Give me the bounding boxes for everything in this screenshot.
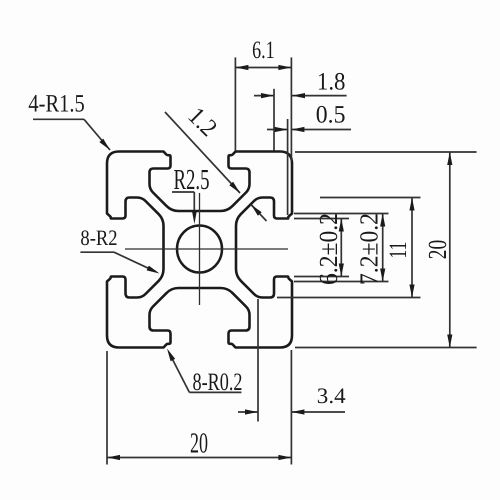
ext line 20 right top [295,151,477,153]
dim 7.2 line [382,214,384,282]
svg-text:3.4: 3.4 [317,383,346,408]
ext line 6.1 left [234,57,236,150]
leader 1.2 [165,112,240,193]
ext line 1.8 [273,89,275,151]
dim 11 line [411,198,413,298]
ext line 6.2 bottom [294,276,349,278]
dim 6.2 line [340,219,342,277]
dim 0.5 lines [267,129,288,131]
svg-text:R2.5: R2.5 [174,164,210,196]
ext line 11 top [320,197,421,199]
dim 20 right line [449,152,451,348]
leader 4-R1.5 [33,118,84,120]
ext line 7.2 top [294,213,389,215]
leader R2.5 [172,191,194,193]
ext line 6.2 top [294,218,349,220]
svg-text:20: 20 [190,428,208,460]
svg-text:11: 11 [385,242,412,259]
ext line 0.5 [287,119,289,215]
svg-text:1.8: 1.8 [317,69,346,96]
extrusion profile outline [107,152,292,348]
dim 6.1 line [235,67,291,69]
vertical centerline [199,193,201,305]
ext line 3.4 left [257,299,259,422]
ext line 20 bottom left [106,351,108,465]
dim 20 bottom line [107,457,291,459]
horizontal centerline [125,248,288,250]
svg-text:6.1: 6.1 [252,37,275,64]
center bore R2.5 [177,226,222,273]
leader 8-R0.2 [189,391,241,393]
ext line right face bottom [290,350,292,465]
svg-text:8-R2: 8-R2 [80,225,117,250]
svg-text:20: 20 [423,240,452,260]
dim 1.8 lines [254,95,274,97]
svg-text:7.2±0.2: 7.2±0.2 [355,213,384,285]
leader 8-R2 [80,251,114,253]
svg-text:4-R1.5: 4-R1.5 [28,90,84,117]
ext line right face top [290,57,292,161]
ext line 20 right bottom [295,347,477,349]
ext line 11 bottom [277,297,421,299]
dim 3.4 lines [238,411,258,413]
svg-text:6.2±0.2: 6.2±0.2 [314,213,343,285]
ext line 7.2 bottom [294,281,389,283]
svg-text:0.5: 0.5 [316,102,346,129]
svg-text:8-R0.2: 8-R0.2 [193,369,243,396]
